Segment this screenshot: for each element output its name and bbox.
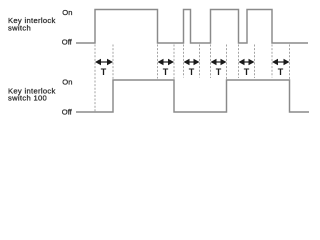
dashed line at x=289.5 xyxy=(289,45,291,80)
wire top waveform: Key interlock switch xyxy=(76,10,308,44)
dashed line at x=183.5 xyxy=(183,45,185,78)
dashed line at x=174 xyxy=(173,45,175,80)
svg-text:Off: Off xyxy=(62,37,73,46)
svg-text:T: T xyxy=(101,67,107,77)
dashed line at x=238.5 xyxy=(238,45,240,79)
wire bottom waveform: Key interlock switch 100 xyxy=(76,80,309,112)
dashed drop lines xyxy=(95,45,290,113)
label Key interlock switch xyxy=(8,16,56,32)
dashed line at x=199.5 xyxy=(199,45,201,78)
arrow T5 238.5-254.5 xyxy=(239,59,255,66)
dashed line at x=210.5 xyxy=(210,45,212,79)
T labels xyxy=(101,67,284,77)
dashed line at x=113 xyxy=(112,45,114,80)
arrow T3 183.5-199.5 xyxy=(184,59,200,66)
svg-text:T: T xyxy=(278,67,284,77)
svg-text:T: T xyxy=(244,67,250,77)
svg-text:T: T xyxy=(189,67,195,77)
arrow T1 95-113 xyxy=(95,59,113,66)
arrow T6 272-289.5 xyxy=(272,59,290,66)
svg-text:On: On xyxy=(62,78,72,87)
arrow T4 210.5-226.5 xyxy=(211,59,227,66)
svg-text:T: T xyxy=(163,67,169,77)
svg-text:Off: Off xyxy=(62,107,73,116)
arrow T2 157.5-174 xyxy=(158,59,175,66)
T interval arrows xyxy=(95,59,290,66)
dashed line at x=272 xyxy=(271,45,273,78)
svg-text:switch: switch xyxy=(8,23,31,32)
dashed line at x=95 xyxy=(94,45,96,113)
svg-text:On: On xyxy=(62,8,72,17)
dashed line at x=254.5 xyxy=(254,45,256,79)
label Key interlock switch 100 xyxy=(8,86,56,102)
dashed line at x=157.5 xyxy=(157,45,159,79)
svg-text:switch 100: switch 100 xyxy=(8,94,47,103)
svg-text:T: T xyxy=(216,67,222,77)
dashed line at x=226.5 xyxy=(226,45,228,80)
